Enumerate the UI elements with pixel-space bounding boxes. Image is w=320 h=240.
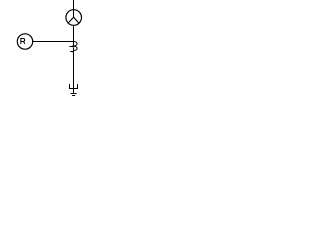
inductor L1 loop 1 bump xyxy=(74,42,78,46)
source U1 inverted-Y right leg xyxy=(74,17,79,23)
inductor L1 loop 2 curl return xyxy=(71,52,74,54)
wire: top lead into source xyxy=(73,0,75,17)
label R xyxy=(21,39,25,44)
ground top bar with upturned ends xyxy=(70,84,78,89)
inductor L1 loop 1 curl sweep xyxy=(69,46,74,48)
inductor L1 loop 2 curl sweep xyxy=(70,51,74,53)
source U1 inverted-Y left leg xyxy=(68,17,74,23)
source U1 (circle) xyxy=(66,10,82,26)
inductor L1 loop 1 curl upper tail xyxy=(71,45,74,47)
inductor L1 loop 2 bump xyxy=(74,46,78,50)
wire: meter R to node A xyxy=(33,41,74,43)
ground bottom bar xyxy=(72,95,75,97)
ground middle bar xyxy=(71,93,77,95)
meter R (circle) xyxy=(17,34,32,49)
inductor L1 loop 1 curl return xyxy=(73,47,74,49)
wire: source through node A down to ground xyxy=(73,26,75,94)
